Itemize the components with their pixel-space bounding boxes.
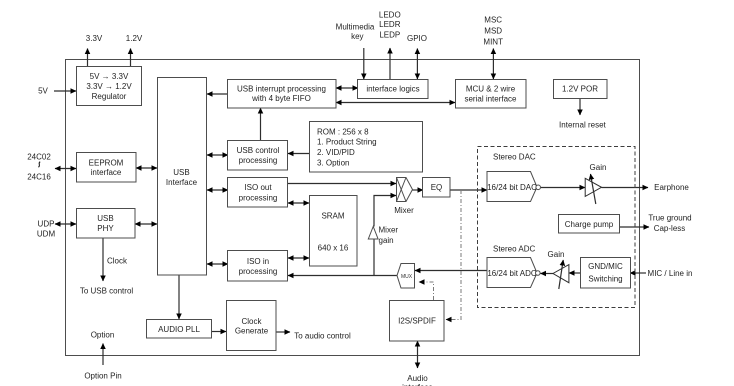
svg-text:Mixer: Mixer — [394, 206, 414, 215]
svg-text:USB control: USB control — [237, 146, 280, 155]
svg-text:LEDO: LEDO — [379, 11, 401, 20]
svg-text:3.3V: 3.3V — [86, 34, 103, 43]
svg-text:processing: processing — [239, 156, 278, 165]
svg-text:Stereo DAC: Stereo DAC — [493, 153, 536, 162]
svg-text:3.3V → 1.2V: 3.3V → 1.2V — [86, 82, 132, 91]
svg-text:EEPROM: EEPROM — [89, 159, 124, 168]
svg-text:gain: gain — [379, 236, 394, 245]
svg-text:Cap-less: Cap-less — [654, 224, 686, 233]
svg-text:To audio control: To audio control — [294, 332, 351, 341]
svg-text:5V: 5V — [38, 87, 48, 96]
svg-text:Audio: Audio — [407, 374, 428, 383]
svg-text:I2S/SPDIF: I2S/SPDIF — [398, 317, 436, 326]
svg-text:MCU & 2 wire: MCU & 2 wire — [466, 85, 516, 94]
svg-text:Regulator: Regulator — [92, 92, 127, 101]
svg-text:Gain: Gain — [548, 250, 565, 259]
svg-text:PHY: PHY — [97, 224, 114, 233]
svg-text:GND/MIC: GND/MIC — [588, 262, 623, 271]
svg-text:MIC / Line in: MIC / Line in — [648, 269, 693, 278]
svg-text:24C16: 24C16 — [27, 173, 51, 182]
svg-text:640 x 16: 640 x 16 — [318, 244, 349, 253]
svg-text:1.2V: 1.2V — [126, 34, 143, 43]
svg-text:ROM : 256 x 8: ROM : 256 x 8 — [317, 128, 369, 137]
svg-text:16/24 bit DAC: 16/24 bit DAC — [487, 183, 537, 192]
svg-text:processing: processing — [239, 267, 278, 276]
svg-text:AUDIO PLL: AUDIO PLL — [158, 325, 200, 334]
svg-text:3. Option: 3. Option — [317, 159, 349, 168]
svg-text:interface logics: interface logics — [366, 85, 419, 94]
svg-text:interface: interface — [91, 168, 122, 177]
svg-text:Clock: Clock — [107, 257, 128, 266]
svg-text:5V → 3.3V: 5V → 3.3V — [90, 72, 129, 81]
svg-text:Interface: Interface — [166, 178, 198, 187]
svg-text:SRAM: SRAM — [321, 212, 344, 221]
svg-text:EQ: EQ — [431, 183, 443, 192]
svg-text:Multimedia: Multimedia — [336, 23, 375, 32]
svg-text:LEDP: LEDP — [379, 31, 400, 40]
svg-text:Charge pump: Charge pump — [565, 220, 614, 229]
svg-text:True ground: True ground — [648, 214, 691, 223]
svg-text:1. Product String: 1. Product String — [317, 138, 377, 147]
svg-text:Earphone: Earphone — [654, 183, 689, 192]
svg-text:MSC: MSC — [484, 16, 502, 25]
svg-text:serial interface: serial interface — [464, 95, 517, 104]
svg-text:with 4 byte FIFO: with 4 byte FIFO — [251, 94, 311, 103]
svg-text:USB: USB — [97, 214, 113, 223]
svg-text:Stereo ADC: Stereo ADC — [493, 245, 535, 254]
svg-text:LEDR: LEDR — [379, 20, 401, 29]
svg-text:Generate: Generate — [235, 327, 269, 336]
svg-text:USB: USB — [173, 168, 189, 177]
svg-text:Switching: Switching — [588, 275, 622, 284]
svg-text:To USB control: To USB control — [80, 287, 134, 296]
svg-text:Mixer: Mixer — [379, 226, 399, 235]
svg-text:ISO out: ISO out — [244, 183, 272, 192]
svg-text:Internal reset: Internal reset — [559, 121, 606, 130]
svg-text:ISO in: ISO in — [247, 257, 269, 266]
svg-text:Option Pin: Option Pin — [84, 372, 121, 381]
svg-text:1.2V POR: 1.2V POR — [562, 85, 598, 94]
svg-text:UDM: UDM — [37, 230, 56, 239]
svg-text:Option: Option — [91, 331, 115, 340]
svg-text:16/24 bit ADC: 16/24 bit ADC — [487, 269, 537, 278]
svg-text:Gain: Gain — [590, 163, 607, 172]
svg-text:UDP: UDP — [38, 220, 55, 229]
svg-text:key: key — [351, 32, 363, 41]
svg-text:MINT: MINT — [483, 38, 503, 47]
svg-text:MUX: MUX — [401, 274, 413, 280]
svg-text:processing: processing — [239, 194, 278, 203]
svg-text:MSD: MSD — [484, 27, 502, 36]
svg-text:Clock: Clock — [241, 317, 262, 326]
svg-text:GPIO: GPIO — [407, 34, 427, 43]
svg-text:24C02: 24C02 — [27, 153, 51, 162]
svg-text:USB interrupt processing: USB interrupt processing — [237, 85, 326, 94]
svg-text:2. VID/PID: 2. VID/PID — [317, 148, 355, 157]
